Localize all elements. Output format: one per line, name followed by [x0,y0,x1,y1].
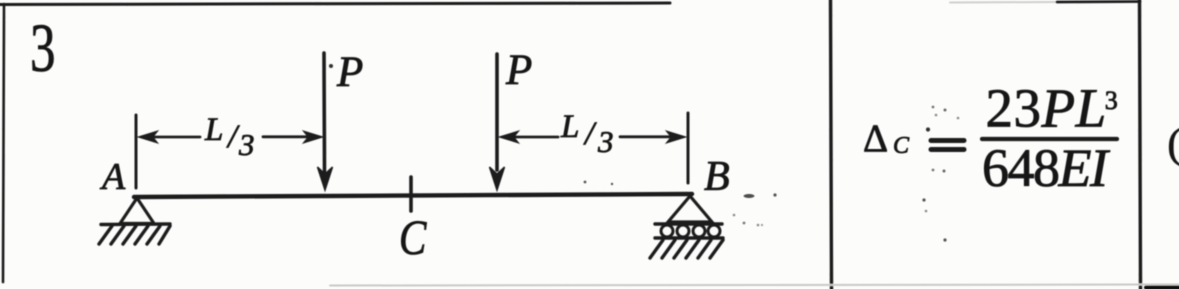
svg-text:A: A [99,156,126,198]
dot before P1 [329,64,333,68]
support B hatching [650,240,723,258]
support B roller triangle [668,196,712,222]
svg-text:Δ: Δ [863,117,888,160]
svg-text:C: C [399,209,427,265]
svg-text:3: 3 [238,127,255,162]
svg-text:/: / [226,119,240,155]
formula fraction bar [982,137,1117,141]
scan speckles [584,106,960,242]
svg-text:3: 3 [30,11,56,87]
formula equals sign [931,141,964,150]
svg-text:P: P [505,47,532,94]
svg-text:648EI: 648EI [982,138,1111,198]
table right border [1140,0,1141,289]
dimension line L/3 left segment 2 [263,135,312,138]
support B bottom roller line [655,236,723,239]
svg-text:/: / [583,116,597,152]
dimension arrowhead left (at A) [139,132,157,143]
midspan tick at C [409,177,413,211]
table column divider [831,0,832,289]
dimension arrowhead left (at P2) [500,132,518,143]
dimension line L/3 right segment 1 [513,136,558,139]
dimension label L/3 (left) [204,112,255,162]
table bottom-right dark segment [1146,286,1179,289]
table left border [3,4,4,282]
extension line at A [135,115,138,188]
load P1 arrow shaft [322,53,326,172]
svg-text:3: 3 [597,124,614,159]
load P2 arrow shaft [495,54,499,170]
svg-text:B: B [704,154,730,200]
load P2 arrowhead [490,167,505,190]
support A hatching [99,226,170,244]
table top border [0,3,670,5]
dimension line L/3 right segment 2 [620,135,672,138]
dimension arrowhead right (at B) [667,132,685,143]
svg-text:(: ( [1168,120,1179,166]
svg-text:C: C [893,133,910,159]
table bottom border (faint) [330,285,1179,286]
svg-text:P: P [336,49,363,96]
support B rollers [661,225,720,237]
svg-text:L: L [204,112,223,148]
support A pin triangle [120,198,154,224]
svg-text:23PL3: 23PL3 [986,78,1119,139]
beam AB [134,194,692,197]
svg-text:L: L [560,109,579,145]
formula delta_C [863,117,910,160]
load P1 arrowhead [318,167,333,190]
dimension arrowhead right (at P1) [304,132,322,143]
dimension line L/3 left segment 1 [152,136,200,139]
dimension label L/3 (right) [560,109,614,159]
support A ground line [101,222,170,226]
support B top roller line [655,222,722,225]
extension line at B [687,113,690,183]
